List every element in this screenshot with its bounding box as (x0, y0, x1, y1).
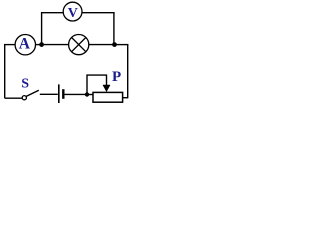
wire left rail vertical (4, 44, 6, 98)
node B junction dot (112, 42, 117, 47)
wiper arrow of rheostat P (103, 75, 110, 92)
wire vertical from top-left corner down to node A (41, 12, 43, 43)
svg-text:S: S (21, 77, 29, 92)
wire battery to node C (65, 93, 87, 95)
wire node A to lamp (44, 44, 69, 46)
node A junction dot (39, 42, 44, 47)
switch S (5, 77, 39, 100)
voltmeter V1 (63, 2, 82, 21)
wire node C to rheostat left terminal (87, 94, 93, 96)
ammeter A1 (15, 35, 35, 55)
wire right rail stub to rheostat right terminal (122, 97, 128, 99)
lamp L1 (69, 35, 89, 55)
wire ammeter to node A (36, 44, 42, 46)
svg-text:A: A (19, 36, 31, 53)
svg-text:V: V (68, 6, 78, 21)
node C junction dot (85, 92, 89, 96)
rheostat P body (93, 92, 123, 102)
wire from voltmeter to top-right corner (82, 12, 115, 14)
wire node B to right rail (115, 44, 129, 46)
battery B1 (59, 84, 64, 103)
wire top-left from corner to voltmeter (41, 12, 63, 14)
wire right rail vertical (127, 44, 129, 98)
wire vertical from top-right corner down to node B (113, 12, 115, 44)
wire lamp to node B (89, 44, 114, 46)
svg-text:P: P (112, 69, 121, 85)
wire wiper: node C up and across (87, 75, 107, 95)
wire left rail horizontal into ammeter (4, 44, 15, 46)
wire switch to battery (40, 93, 58, 95)
